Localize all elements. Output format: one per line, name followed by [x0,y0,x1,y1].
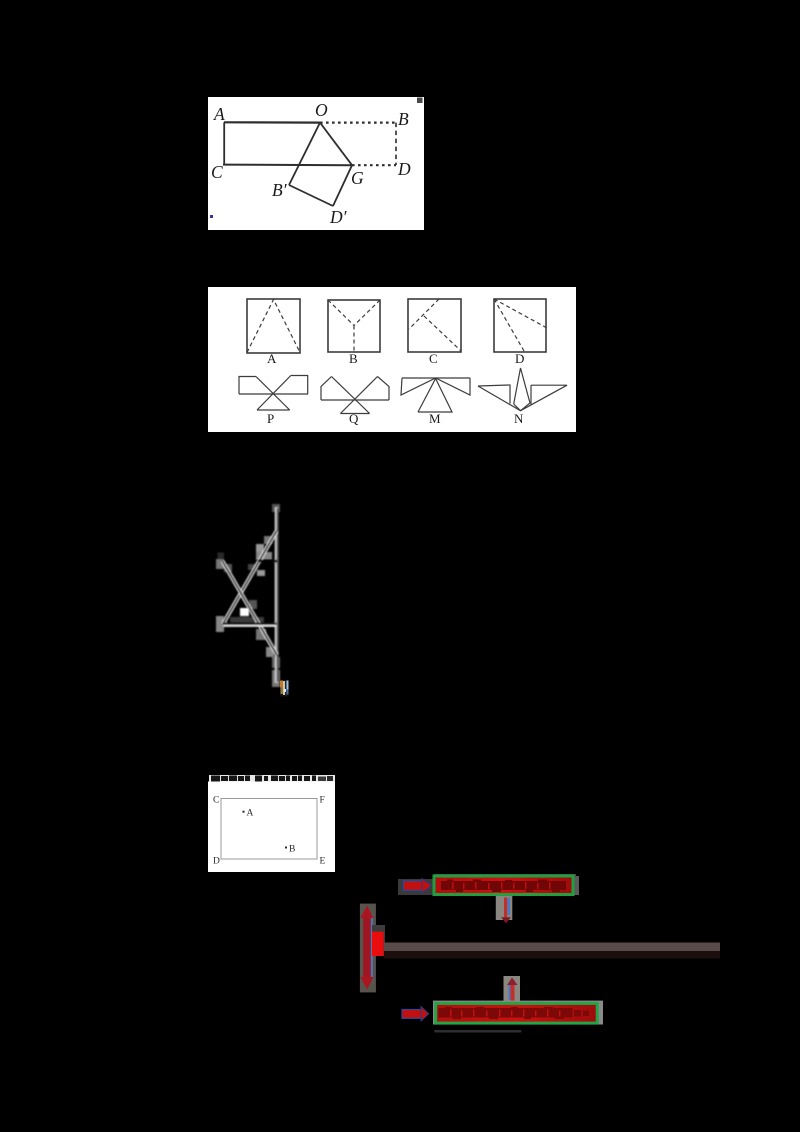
svg-text:A: A [267,351,277,366]
bottom red box with green border [436,1003,598,1023]
figure 3: grey upscaled X-figure on black [195,490,305,705]
svg-text:G: G [351,168,364,188]
wire: diagonal top-left to bottom-right [223,561,277,655]
wire: dashed B-D [395,123,397,165]
wire: bottom horizontal [223,624,276,627]
figure 1 panel: rectangle fold geometry [208,97,424,230]
svg-text:D: D [397,159,411,179]
up arrow above bottom box [504,976,521,1003]
wire: left edge A-C [223,122,225,165]
square B [328,300,380,352]
svg-text:B: B [398,109,409,129]
bottom flow diagram with red boxes [355,870,730,1035]
colored mark at bottom [280,680,289,697]
arrow into bottom box [402,1007,429,1022]
down arrow below top box [496,896,513,923]
square A [247,299,300,353]
svg-text:N: N [514,411,524,426]
blue dot bottom-left [210,215,213,218]
wire: O-G [320,123,352,166]
svg-text:F: F [320,796,325,806]
point A [243,811,245,813]
point B [285,847,287,849]
svg-text:E: E [320,857,326,867]
svg-text:B: B [289,845,295,855]
red square node [372,925,385,956]
top red box with green border [434,876,573,895]
svg-text:Q: Q [349,411,359,426]
wire: top edge A-O [224,121,320,123]
svg-text:B: B [349,351,358,366]
arrow into top box [404,879,432,894]
svg-text:C: C [429,351,438,366]
figure 4 panel: rectangle CFDE with points A,B [208,775,335,872]
figure 2 panel: squares A-D and shapes P Q M N [208,287,576,432]
svg-text:A: A [213,104,225,124]
garbled dark-red text in top box [441,880,566,892]
shape N [478,368,567,411]
shape M [401,378,470,412]
svg-text:M: M [429,411,441,426]
left vertical double arrow [360,904,376,993]
dark notch top-right of panel [417,98,423,104]
wire: dotted G-D [352,164,396,166]
shape P [239,376,308,411]
wire: vertical line [275,507,279,683]
svg-text:D′: D′ [329,207,348,227]
wire: short top black segment [258,560,277,563]
svg-text:D: D [213,857,220,867]
svg-text:O: O [315,100,328,120]
svg-text:C: C [213,796,219,806]
bottom box shadow [433,1001,603,1025]
wire: dotted O-B [320,121,396,123]
long horizontal maroon line [384,943,720,952]
wire: diagonal bottom-left to top-right [223,531,276,624]
garbled caption strip [211,775,333,781]
svg-text:B′: B′ [272,180,288,200]
shadow blob behind top arrow [398,879,434,895]
svg-text:A: A [247,809,254,819]
dark line below bottom box [434,1030,521,1033]
wire: B'-D' [289,185,333,206]
top box shadow right edge [574,876,580,895]
svg-text:C: C [211,162,223,182]
rectangle CFDE [221,799,317,860]
wire: bottom edge C-G [223,164,352,167]
garbled dark-red text in bottom box [439,1007,590,1019]
svg-text:P: P [267,411,274,426]
wire: D'-G [333,165,352,206]
wire: O-B' [289,123,320,185]
square C [408,299,461,352]
square D [494,299,546,352]
svg-text:D: D [515,351,524,366]
shape Q [321,377,389,414]
